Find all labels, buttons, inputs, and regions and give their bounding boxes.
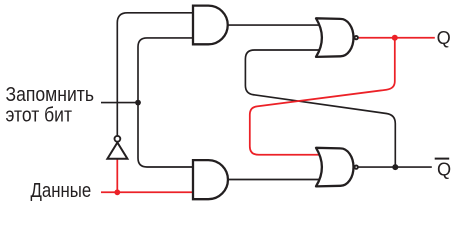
svg-text:Данные: Данные	[31, 180, 92, 202]
svg-text:Запомнить: Запомнить	[6, 84, 95, 106]
svg-text:Q: Q	[437, 28, 451, 48]
svg-text:Q: Q	[437, 160, 451, 180]
svg-text:этот бит: этот бит	[6, 105, 73, 127]
